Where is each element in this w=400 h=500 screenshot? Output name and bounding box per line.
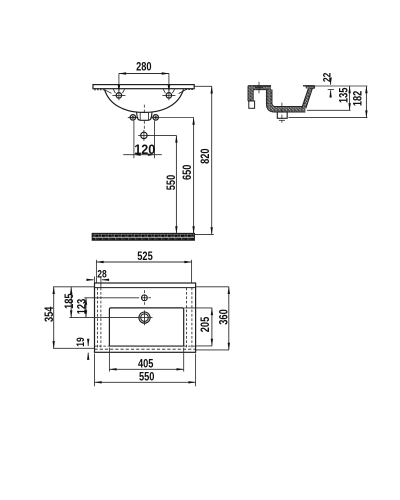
plan view: faucet extension line: [84, 297, 139, 299]
dimension 820: extension line: [194, 85, 212, 87]
dimension 650: extension line: [159, 117, 194, 119]
plan view: bottom-left extension: [53, 347, 95, 349]
front view: right drain bolt: [150, 116, 158, 118]
dimension 182: line: [365, 86, 367, 118]
dimension 280: line: [119, 73, 169, 75]
plan view: drain extension line: [69, 317, 152, 319]
dimension 22: arrows and ledge tick: [330, 79, 332, 84]
dimension 360: extension lines: [196, 286, 229, 288]
dimension 550: extension line: [147, 134, 176, 136]
side view: bracket foot: [249, 101, 255, 108]
dimension 120: arrows: [134, 154, 141, 156]
dimension 280: extension lines: [118, 74, 120, 93]
dimension 360: line: [228, 287, 230, 350]
dimension 405: extension lines: [108, 348, 110, 372]
plan view: basin bottom edge: [109, 345, 183, 347]
plan view: hidden edge lines left: [96, 288, 98, 350]
front view: floor hatch strip: [92, 233, 194, 240]
svg-text:360: 360: [218, 309, 232, 324]
svg-text:123: 123: [75, 299, 89, 314]
dimension 185: line: [70, 287, 72, 318]
front view: mounting lug edges left: [113, 89, 115, 93]
svg-text:22: 22: [321, 72, 333, 82]
front view: overflow hole: [138, 134, 149, 136]
dimension 405: line: [109, 368, 183, 370]
dimension 550 plan: extension lines: [94, 354, 96, 387]
svg-text:205: 205: [199, 317, 213, 332]
dimension 650: line: [193, 118, 195, 234]
svg-text:19: 19: [75, 337, 87, 347]
dimension 820: line: [211, 86, 213, 234]
dimension 525: line: [96, 261, 191, 263]
dimension 19: arrows: [87, 340, 89, 346]
plan view: basin rectangle: [109, 308, 183, 346]
dimension 550: line: [175, 135, 177, 233]
front view: mounting lug edges right: [163, 89, 165, 93]
svg-text:182: 182: [351, 91, 365, 106]
dimension 28: arrows: [88, 279, 94, 281]
dimension 205: extension lines: [184, 307, 212, 309]
side view: fixing bolt axis: [258, 82, 260, 94]
svg-text:135: 135: [337, 88, 351, 103]
svg-text:28: 28: [97, 268, 107, 280]
svg-text:820: 820: [199, 148, 213, 163]
front view: right mounting hole: [166, 93, 171, 98]
front view: drain bracket body: [137, 112, 153, 121]
plan view: top-left corner extension: [53, 286, 95, 288]
dimension 135: line: [349, 86, 351, 110]
side view: bowl front wall and bottom: [269, 90, 305, 110]
side view: bowl back wall: [304, 88, 311, 107]
front view: drain bracket inner edges: [139, 112, 141, 120]
plan view: back edge inner line: [95, 287, 196, 289]
plan view: drain hole: [144, 310, 146, 325]
side view: wall bracket (apron): [248, 86, 253, 101]
front view: centre line: [143, 105, 145, 112]
svg-text:405: 405: [138, 357, 153, 371]
dimension 120: extension lines: [133, 121, 135, 158]
dimension 550 plan: line: [95, 381, 196, 383]
dimension 205: line: [211, 308, 213, 346]
svg-text:185: 185: [63, 293, 77, 308]
svg-text:120: 120: [134, 141, 155, 157]
svg-text:650: 650: [181, 165, 195, 180]
dimension 135: extension line: [307, 109, 351, 111]
svg-text:550: 550: [139, 370, 154, 384]
front view: washbasin top bar (counter edge): [93, 85, 194, 89]
plan view: outer rectangle: [95, 283, 196, 352]
front view: underside edge right: [186, 89, 194, 91]
dimension 120: line: [123, 154, 162, 156]
front view: left drain bolt: [128, 116, 138, 118]
plan view: hidden bottom edges: [95, 345, 110, 347]
side view: top rim strip: [248, 86, 271, 90]
side view: drain centre line: [281, 103, 283, 123]
dimension 354: line: [53, 287, 55, 349]
side view: top extension line: [315, 85, 368, 87]
svg-text:525: 525: [137, 250, 152, 264]
svg-text:550: 550: [165, 175, 179, 190]
plan view: faucet hole: [143, 290, 145, 293]
dimension 28: extension lines: [94, 277, 96, 283]
side view: drain stub: [277, 112, 287, 118]
front view: floor extension line: [194, 234, 213, 236]
front view: underside edge left: [94, 89, 104, 91]
svg-text:280: 280: [136, 60, 151, 74]
front view: basin bowl outline: [105, 89, 184, 112]
front view: left mounting hole: [116, 93, 121, 98]
side view: back rim strip: [306, 86, 315, 89]
dimension 123: line: [85, 298, 87, 318]
dimension 182: extension line: [289, 117, 368, 119]
plan view: hidden edge lines right: [186, 288, 188, 350]
svg-text:354: 354: [43, 307, 57, 322]
dimension 525: extension lines: [95, 260, 97, 283]
